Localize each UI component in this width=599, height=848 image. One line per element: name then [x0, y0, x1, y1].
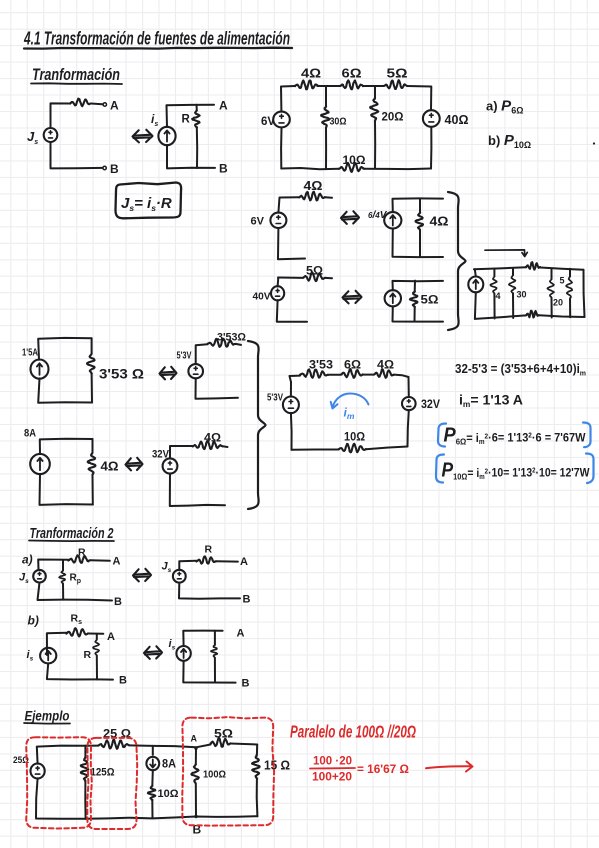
wire top [290, 376, 301, 382]
svg-text:P10Ω= im2·10= 1'132·10= 12'7W: P10Ω= im2·10= 1'132·10= 12'7W [442, 460, 591, 482]
svg-text:B: B [242, 678, 250, 690]
wire [37, 746, 86, 764]
wire [36, 778, 86, 819]
svg-text:100+20: 100+20 [312, 772, 352, 784]
resistor 3'53 [300, 369, 328, 377]
svg-text:b) P10Ω: b) P10Ω [488, 132, 531, 150]
wire [179, 561, 196, 570]
svg-text:R: R [205, 544, 213, 556]
wire top [38, 560, 68, 571]
wire [196, 378, 238, 398]
wire [569, 299, 571, 317]
wire top right [541, 268, 584, 270]
wire [38, 338, 91, 360]
wire [195, 784, 197, 817]
resistor 4ohm [193, 441, 223, 449]
svg-text:30: 30 [517, 290, 527, 300]
voltage source 32V [402, 397, 416, 410]
resistor vertical [211, 645, 217, 658]
wire [419, 230, 421, 257]
resistor 4 vertical [491, 276, 497, 293]
voltage source 5'3V [188, 364, 203, 378]
current source is [40, 648, 56, 664]
svg-text:10Ω: 10Ω [344, 432, 365, 444]
wire [278, 198, 279, 213]
terminal A [103, 103, 106, 106]
svg-text:8A: 8A [162, 759, 176, 771]
wire branch [214, 631, 216, 645]
wire [407, 86, 431, 110]
wire [151, 800, 153, 818]
wire branch [414, 281, 416, 292]
wire [223, 445, 228, 448]
wire [475, 269, 476, 276]
wire [408, 377, 410, 397]
wire [551, 298, 553, 318]
wire branch 20ohm [374, 86, 376, 98]
wire [290, 382, 292, 397]
current source 8A [146, 757, 159, 770]
svg-text:20: 20 [553, 298, 563, 308]
resistor 5 vertical [566, 276, 572, 299]
wire [256, 779, 259, 817]
current source is [158, 127, 175, 145]
svg-text:10Ω: 10Ω [158, 788, 179, 800]
wire [394, 375, 409, 377]
svg-text:3'53 Ω: 3'53 Ω [99, 366, 144, 382]
svg-text:Js= is·R: Js= is·R [121, 195, 172, 213]
voltage source 40 [423, 110, 440, 127]
svg-text:6Ω: 6Ω [342, 66, 362, 81]
resistor 5ohm vertical [410, 292, 418, 308]
wire [91, 103, 103, 106]
resistor series bottom [526, 311, 539, 318]
svg-text:P6Ω= im2·6= 1'132·6 = 7'67W: P6Ω= im2·6= 1'132·6 = 7'67W [444, 425, 587, 447]
wire [231, 744, 258, 745]
svg-text:Js: Js [162, 561, 172, 575]
svg-text:4Ω: 4Ω [101, 459, 119, 474]
svg-text:R: R [84, 649, 92, 661]
wire branch Rp [62, 560, 64, 571]
wire bottom right [539, 315, 585, 317]
red arrow [426, 762, 473, 772]
wire bottom [86, 816, 258, 819]
svg-text:= 16'67 Ω: = 16'67 Ω [357, 762, 409, 776]
wire [277, 300, 307, 322]
wire [167, 145, 215, 168]
resistor 125ohm vertical [81, 757, 89, 781]
red dashed box A-B section [182, 717, 274, 826]
wire [170, 473, 225, 506]
red dashed box 25ohm [87, 738, 137, 829]
svg-text:20Ω: 20Ω [382, 112, 404, 124]
voltage source 32V [163, 458, 178, 473]
svg-text:100Ω: 100Ω [203, 770, 226, 781]
svg-text:32-5'3 = (3'53+6+4+10)im: 32-5'3 = (3'53+6+4+10)im [455, 362, 586, 378]
wire [430, 127, 432, 169]
svg-text:Js: Js [27, 129, 38, 146]
svg-text:Rp: Rp [70, 573, 82, 586]
svg-text:is: is [169, 638, 176, 652]
svg-text:is: is [27, 649, 34, 663]
svg-text:A: A [113, 556, 121, 568]
resistor Rs [66, 628, 88, 636]
resistor R vertical [196, 105, 198, 111]
svg-text:3'53Ω: 3'53Ω [217, 332, 246, 344]
wire [277, 278, 280, 287]
wire [216, 560, 238, 562]
svg-text:Rs: Rs [71, 613, 83, 627]
wire [408, 410, 409, 446]
wire branch R [96, 634, 98, 640]
voltage source Js [173, 570, 186, 583]
svg-text:5Ω: 5Ω [387, 66, 408, 81]
resistor R [68, 555, 90, 563]
svg-text:Paralelo de 100Ω //20Ω: Paralelo de 100Ω //20Ω [290, 722, 416, 742]
svg-text:A: A [219, 99, 228, 113]
svg-text:A: A [240, 556, 248, 568]
svg-text:30Ω: 30Ω [330, 116, 347, 128]
wire [91, 373, 93, 402]
equivalence arrow [144, 646, 162, 659]
svg-text:32V: 32V [421, 399, 440, 411]
svg-text:4.1 Transformación de fuentes: 4.1 Transformación de fuentes de aliment… [23, 29, 290, 49]
svg-text:10Ω: 10Ω [343, 155, 366, 167]
svg-text:40V: 40V [253, 291, 271, 303]
svg-text:a): a) [22, 553, 33, 567]
wire bottom [281, 168, 339, 169]
wire top [278, 277, 303, 279]
arrow annotation [485, 250, 527, 257]
resistor 4ohm [374, 369, 394, 377]
stray ink dot [593, 142, 595, 144]
wire [328, 374, 341, 376]
wire top [153, 746, 196, 747]
wire [318, 85, 340, 87]
wire top left [474, 267, 526, 269]
current source 6/4 [384, 212, 401, 228]
svg-text:4Ω: 4Ω [204, 431, 221, 445]
svg-text:125Ω: 125Ω [91, 767, 115, 779]
current source [468, 277, 483, 293]
svg-text:R: R [182, 114, 191, 126]
voltage source 6V [270, 213, 286, 228]
blue mesh current arrow im [331, 394, 369, 409]
current source is [176, 646, 190, 661]
equivalence arrow [341, 211, 359, 224]
wire [179, 583, 240, 599]
wire [493, 294, 495, 319]
brace right [448, 192, 466, 330]
resistor 5ohm [384, 80, 407, 89]
svg-text:6V: 6V [251, 216, 265, 228]
svg-text:Tranformación 2: Tranformación 2 [30, 526, 114, 542]
voltage source 5'3V [283, 397, 299, 414]
resistor 10ohm vertical [148, 786, 155, 800]
resistor 10ohm [339, 163, 364, 172]
wire bottom left [475, 315, 526, 319]
resistor 25ohm [98, 740, 129, 749]
svg-text:6Ω: 6Ω [344, 360, 361, 372]
wire [366, 447, 408, 450]
svg-text:5Ω: 5Ω [214, 727, 233, 741]
wire [363, 85, 384, 87]
wire [51, 142, 103, 168]
resistor series [70, 99, 91, 107]
wire [278, 228, 305, 259]
wire [151, 771, 154, 786]
svg-text:A: A [237, 628, 245, 640]
svg-text:5'3V: 5'3V [267, 392, 283, 404]
svg-text:b): b) [28, 614, 39, 628]
wire [38, 378, 92, 402]
svg-text:5Ω: 5Ω [421, 293, 439, 307]
resistor 3'53ohm [208, 339, 236, 347]
svg-text:4Ω: 4Ω [430, 215, 449, 229]
svg-text:B: B [119, 675, 127, 687]
wire [414, 307, 416, 321]
blue bracket left [438, 424, 446, 447]
svg-text:15 Ω: 15 Ω [264, 759, 290, 773]
wire [91, 559, 110, 562]
voltage source Js [33, 570, 46, 583]
voltage source 40V [271, 286, 284, 300]
node B dot [194, 815, 197, 818]
wire [92, 439, 94, 453]
wire [374, 121, 376, 169]
voltage source 6V [273, 112, 290, 128]
wire branch 125ohm [84, 746, 86, 758]
wire bottom [393, 229, 444, 257]
wire [40, 474, 93, 505]
wire [84, 781, 86, 819]
wire [290, 413, 293, 450]
red fraction bar [310, 767, 355, 770]
svg-text:40Ω: 40Ω [445, 113, 469, 127]
wire branch 30 [512, 268, 514, 275]
wire bottom [393, 306, 444, 321]
svg-text:im= 1'13 A: im= 1'13 A [459, 393, 523, 410]
wire [38, 583, 64, 601]
wire [51, 103, 71, 128]
resistor 15ohm vertical [252, 755, 260, 779]
wire [280, 128, 282, 169]
svg-text:is: is [151, 112, 158, 128]
wire [325, 196, 332, 199]
svg-text:A: A [110, 99, 119, 113]
wire right [584, 270, 585, 317]
svg-text:Tranformación: Tranformación [32, 65, 120, 84]
equivalence arrow [343, 291, 362, 304]
resistor 5ohm [303, 272, 325, 281]
brace right [248, 341, 266, 509]
resistor Rp vertical [59, 571, 65, 584]
wire [170, 446, 193, 459]
wire [236, 344, 241, 345]
svg-text:B: B [219, 162, 228, 176]
current source 1'5A [31, 360, 49, 379]
wire [196, 745, 211, 748]
wire [62, 584, 64, 600]
wire [196, 344, 208, 364]
wire branch [419, 198, 421, 212]
svg-text:6V: 6V [261, 116, 275, 128]
resistor 4ohm vertical [88, 453, 96, 475]
svg-text:8A: 8A [24, 428, 36, 440]
wire [129, 744, 153, 747]
svg-text:B: B [110, 162, 119, 176]
wire [96, 656, 98, 680]
wire [40, 439, 93, 454]
svg-text:5: 5 [560, 276, 565, 286]
wire [512, 294, 514, 318]
wire top [393, 281, 444, 291]
wire branch 5 [569, 269, 571, 277]
svg-text:3'53: 3'53 [309, 360, 333, 372]
wire [325, 128, 327, 169]
wire branch 4 [493, 269, 495, 277]
svg-text:5'3V: 5'3V [177, 350, 192, 362]
wire top [85, 745, 98, 747]
resistor 4ohm vertical [416, 213, 424, 231]
blue bracket right 2 [586, 454, 594, 484]
resistor 30ohm [321, 106, 329, 128]
equivalence arrow [126, 458, 143, 471]
svg-text:a) P6Ω: a) P6Ω [486, 98, 523, 116]
formula box Js = is*R [116, 183, 182, 219]
wire [325, 277, 332, 279]
wire [363, 374, 374, 376]
equivalence arrow [133, 569, 151, 582]
resistor 3'53ohm vertical [87, 354, 95, 374]
blue bracket left 2 [436, 455, 444, 483]
voltage source 25 [30, 764, 44, 779]
resistor 6ohm [340, 80, 363, 89]
wire [196, 128, 198, 169]
blue bracket right [583, 423, 591, 448]
wire bottom [183, 661, 235, 683]
wire branch 100ohm [195, 748, 197, 764]
wire bottom [97, 678, 113, 680]
wire top [393, 198, 444, 212]
svg-text:4: 4 [496, 291, 501, 301]
wire top [47, 633, 67, 655]
red dashed box source+125ohm [26, 737, 92, 828]
wire right 15ohm [256, 745, 258, 755]
wire branch 20 [551, 269, 553, 280]
wire bottom [63, 599, 112, 602]
wire [214, 658, 216, 683]
svg-text:100 ·20: 100 ·20 [313, 756, 352, 768]
wire [92, 475, 94, 505]
equivalence arrow [160, 367, 177, 380]
resistor series top [526, 262, 541, 269]
svg-text:4Ω: 4Ω [377, 360, 394, 372]
svg-text:B: B [114, 596, 122, 608]
resistor R [196, 556, 216, 563]
wire top [183, 631, 222, 646]
svg-text:1'5A: 1'5A [22, 347, 38, 359]
resistor R vertical [93, 640, 99, 656]
wire [364, 168, 431, 171]
resistor 30 vertical [509, 275, 516, 294]
terminal B [103, 166, 106, 169]
current source [385, 290, 401, 306]
wire top [280, 196, 299, 198]
svg-text:Ejemplo: Ejemplo [25, 708, 70, 724]
wire branch 30ohm [325, 86, 327, 107]
svg-text:B: B [243, 594, 251, 606]
resistor 5ohm [211, 738, 231, 747]
current source 8A [30, 454, 50, 474]
resistor 10ohm [339, 444, 366, 453]
voltage source Js [44, 128, 58, 142]
wire [152, 746, 154, 755]
wire top [281, 86, 295, 111]
equivalence arrow [133, 130, 153, 143]
wire [91, 338, 93, 354]
resistor 4ohm [299, 192, 325, 201]
resistor 20 vertical [547, 279, 554, 298]
svg-text:A: A [107, 631, 115, 643]
resistor 6ohm [341, 369, 363, 378]
resistor 4ohm [295, 81, 318, 90]
wire bottom [292, 449, 339, 451]
resistor 100ohm vertical [191, 764, 198, 783]
svg-text:4Ω: 4Ω [301, 66, 321, 81]
svg-text:A: A [191, 734, 198, 744]
resistor 20ohm [370, 98, 378, 121]
wire [88, 633, 103, 635]
node A dot [194, 747, 197, 750]
wire [47, 663, 97, 679]
wire [167, 105, 215, 127]
